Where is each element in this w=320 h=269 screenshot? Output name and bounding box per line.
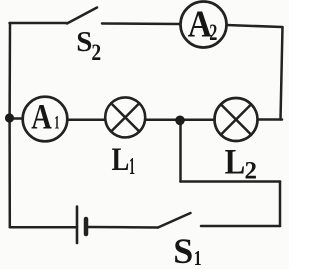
wire A2 to top-right corner bbox=[227, 25, 283, 27]
wire branch horizontal to right bbox=[181, 180, 281, 183]
svg-text:2: 2 bbox=[209, 20, 217, 45]
node junction dot left bbox=[5, 113, 14, 122]
battery negative plate (short thick) bbox=[84, 219, 89, 234]
wire branch down from middle node bbox=[179, 122, 182, 182]
svg-text:L: L bbox=[225, 142, 246, 182]
wire S2 right contact to A2 bbox=[102, 22, 180, 25]
wire L2 to right vertical bbox=[258, 118, 282, 121]
wire left node to A1 bbox=[10, 117, 23, 120]
wire right vertical upper bbox=[281, 27, 283, 120]
svg-text:1: 1 bbox=[54, 112, 59, 133]
svg-text:1: 1 bbox=[194, 247, 202, 269]
label A2 bbox=[188, 2, 218, 45]
label L2 bbox=[225, 142, 257, 184]
node junction dot middle bbox=[175, 116, 185, 126]
svg-text:2: 2 bbox=[91, 39, 101, 65]
ammeter A1 circle bbox=[23, 97, 68, 142]
svg-text:1: 1 bbox=[129, 154, 135, 181]
wire battery to S1 bbox=[88, 226, 158, 229]
wire L1 to L2 bbox=[146, 119, 215, 122]
lamp L1 cross stroke 1 bbox=[111, 103, 139, 131]
lamp L1 circle bbox=[105, 97, 145, 137]
ammeter A2 circle bbox=[181, 2, 227, 48]
svg-text:A: A bbox=[31, 97, 52, 137]
label A1 bbox=[31, 97, 59, 137]
wire A1 to L1 bbox=[67, 119, 105, 122]
svg-text:S: S bbox=[76, 26, 92, 58]
battery positive plate (long) bbox=[76, 207, 79, 244]
lamp L1 cross stroke 2 bbox=[111, 103, 139, 131]
switch S2 blade (open) bbox=[67, 8, 97, 24]
label S2 bbox=[76, 26, 101, 65]
lamp L2 cross stroke 2 bbox=[221, 104, 251, 134]
svg-text:A: A bbox=[188, 2, 212, 44]
wire left vertical bbox=[8, 23, 11, 227]
switch S1 blade (open) bbox=[158, 213, 191, 228]
wire top left segment bbox=[10, 22, 68, 25]
svg-text:S: S bbox=[173, 231, 193, 269]
wire bottom left segment bbox=[10, 226, 76, 229]
wire right vertical lower bbox=[279, 182, 282, 227]
lamp L2 cross stroke 1 bbox=[221, 104, 251, 134]
svg-text:2: 2 bbox=[245, 157, 258, 184]
svg-text:L: L bbox=[112, 141, 130, 177]
label L1 bbox=[112, 141, 135, 180]
label S1 bbox=[173, 231, 201, 269]
wire bottom right to S1 bbox=[201, 225, 280, 228]
lamp L2 circle bbox=[215, 98, 258, 141]
